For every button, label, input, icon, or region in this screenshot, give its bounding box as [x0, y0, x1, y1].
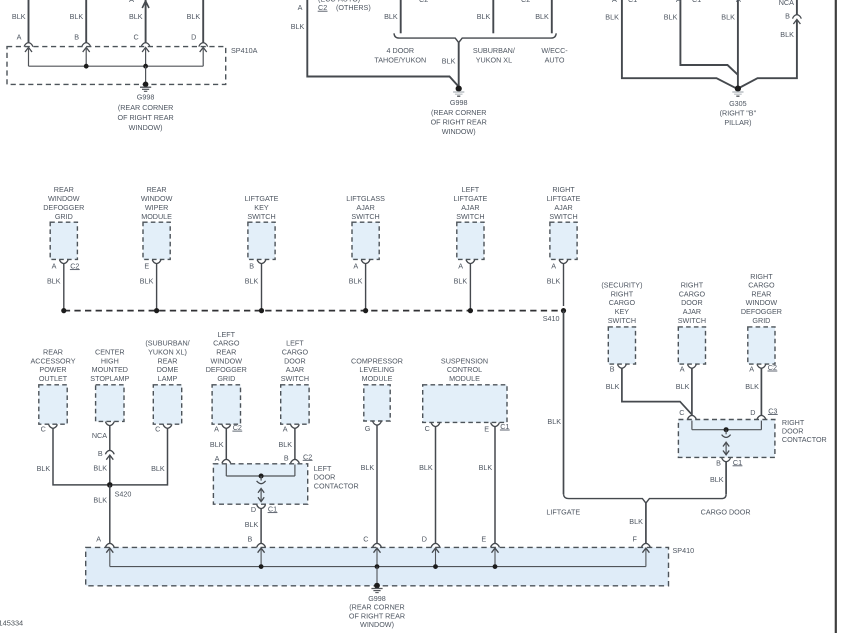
svg-text:LEVELING: LEVELING: [359, 365, 395, 374]
pin A connector of right cargo rear window defogger grid: [757, 364, 766, 368]
svg-text:AUTO: AUTO: [545, 55, 565, 64]
svg-text:SWITCH: SWITCH: [678, 316, 706, 325]
svg-text:KEY: KEY: [254, 203, 269, 212]
svg-text:BLK: BLK: [676, 382, 690, 391]
svg-text:E: E: [481, 534, 486, 543]
svg-text:HIGH: HIGH: [101, 356, 119, 365]
wire BLK 4dr into brace: [400, 0, 402, 33]
wire BLK contactor D to SP410 pin B: [260, 509, 262, 544]
stub inside SP410 pin B: [260, 548, 262, 567]
dashed ground bus S410: [64, 310, 564, 312]
SP410 internal bus: [110, 566, 646, 568]
svg-text:A: A: [17, 33, 22, 42]
svg-text:B: B: [74, 33, 79, 42]
wire BLK ecc into brace: [551, 0, 553, 33]
pin connector of center high mounted stoplamp: [105, 422, 114, 426]
svg-text:RIGHT: RIGHT: [750, 272, 773, 281]
connector at SP410A pin D: [199, 43, 208, 47]
right contactor internal bus: [692, 429, 762, 431]
SP410A ground drop wire: [145, 66, 147, 83]
junction dot B: [84, 64, 89, 69]
svg-text:C2: C2: [521, 0, 530, 4]
svg-text:D: D: [251, 505, 256, 514]
component box rear window defogger grid: [50, 222, 77, 259]
svg-text:G998: G998: [137, 93, 155, 102]
component box security right cargo key switch: [608, 327, 635, 364]
svg-text:B: B: [284, 454, 289, 463]
svg-text:D: D: [750, 408, 755, 417]
wire BLK compressor to SP410 pin C: [376, 425, 378, 543]
splice pack SP410 box: [86, 547, 669, 585]
right contactor junction dot: [724, 427, 729, 432]
svg-text:CONTACTOR: CONTACTOR: [782, 435, 827, 444]
connector at SP410A pin C: [141, 43, 150, 47]
svg-text:POWER: POWER: [39, 365, 66, 374]
svg-text:SP410: SP410: [673, 546, 695, 555]
pin A connector of right liftgate ajar switch: [559, 260, 568, 264]
svg-text:MOUNTED: MOUNTED: [92, 365, 128, 374]
svg-text:BLK: BLK: [721, 13, 735, 22]
svg-text:BLK: BLK: [93, 463, 107, 472]
SP410 bus dot D: [433, 564, 438, 569]
svg-text:NCA: NCA: [92, 431, 107, 440]
svg-text:E: E: [484, 424, 489, 433]
svg-text:BLK: BLK: [12, 12, 26, 21]
stub inside SP410A pin A: [28, 48, 30, 67]
svg-text:WIPER: WIPER: [145, 203, 169, 212]
svg-text:BLK: BLK: [384, 12, 398, 21]
svg-text:LEFT: LEFT: [314, 464, 332, 473]
wire BLK from rear window defogger grid to bus: [63, 264, 65, 311]
svg-text:DOME: DOME: [157, 365, 179, 374]
connector at SP410 pin C: [373, 543, 382, 547]
svg-text:PILLAR): PILLAR): [724, 118, 751, 127]
connector at SP410A pin B: [82, 43, 91, 47]
svg-text:LIFTGATE: LIFTGATE: [245, 194, 279, 203]
arrow off-page at top of wire C: [142, 1, 149, 8]
svg-text:A: A: [129, 0, 134, 4]
wire BLK suspension C to SP410 pin D: [435, 427, 437, 544]
wire BLK defogger to contactor pin D: [760, 368, 762, 415]
component box rear accessory power outlet: [39, 385, 67, 424]
wire stoplamp upper: [109, 426, 111, 451]
svg-text:G998: G998: [450, 98, 468, 107]
stub inside SP410 pin C: [376, 548, 378, 567]
svg-text:145334: 145334: [0, 619, 23, 628]
svg-text:B: B: [785, 11, 790, 20]
bus junction dot at left liftgate ajar switch: [468, 308, 473, 313]
svg-text:BLK: BLK: [419, 463, 433, 472]
svg-text:DEFOGGER: DEFOGGER: [206, 365, 247, 374]
component box left cargo rear window defogger grid: [212, 385, 240, 424]
svg-text:SUSPENSION: SUSPENSION: [441, 356, 488, 365]
svg-text:CARGO: CARGO: [609, 298, 636, 307]
svg-text:A: A: [214, 424, 219, 433]
pin B connector of liftgate key switch: [257, 260, 266, 264]
svg-text:REAR: REAR: [43, 348, 63, 357]
svg-text:S410: S410: [543, 314, 560, 323]
svg-text:COMPRESSOR: COMPRESSOR: [351, 356, 403, 365]
pin B connector of security right cargo key switch: [618, 364, 627, 368]
svg-text:(RIGHT "B": (RIGHT "B": [720, 108, 757, 117]
svg-text:BLK: BLK: [245, 520, 259, 529]
svg-text:SWITCH: SWITCH: [281, 374, 309, 383]
svg-text:BLK: BLK: [535, 12, 549, 21]
svg-text:C: C: [155, 424, 160, 433]
SP410A internal bus: [29, 65, 204, 67]
svg-text:AJAR: AJAR: [554, 203, 572, 212]
connector at SP410 pin D: [431, 543, 440, 547]
component box rear window wiper module: [143, 222, 170, 259]
svg-text:CARGO: CARGO: [213, 339, 240, 348]
svg-text:(REAR CORNER: (REAR CORNER: [431, 108, 487, 117]
wire BLK into SP410A pin D: [202, 0, 204, 43]
svg-text:(REAR CORNER: (REAR CORNER: [118, 103, 174, 112]
svg-text:C1: C1: [628, 0, 637, 4]
svg-text:BLK: BLK: [664, 13, 678, 22]
svg-text:4 DOOR: 4 DOOR: [387, 46, 415, 55]
svg-text:NCA: NCA: [779, 0, 794, 7]
svg-text:DEFOGGER: DEFOGGER: [741, 307, 782, 316]
svg-text:D: D: [191, 33, 196, 42]
svg-text:A: A: [736, 0, 741, 4]
svg-text:C2: C2: [419, 0, 428, 4]
svg-text:BLK: BLK: [780, 30, 794, 39]
svg-text:OF RIGHT REAR: OF RIGHT REAR: [431, 118, 487, 127]
svg-text:BLK: BLK: [454, 277, 468, 286]
svg-text:BLK: BLK: [70, 12, 84, 21]
wire below connector B: [740, 20, 797, 87]
svg-text:G305: G305: [729, 99, 747, 108]
pin E connector of suspension module: [491, 423, 500, 427]
svg-text:A: A: [283, 424, 288, 433]
stub inside SP410 pin D: [435, 548, 437, 567]
wire NCA/B to G305: [796, 0, 798, 15]
right contactor stub D: [760, 421, 762, 430]
svg-text:SWITCH: SWITCH: [549, 212, 577, 221]
svg-text:A: A: [612, 0, 617, 4]
svg-text:B: B: [248, 534, 253, 543]
svg-text:SUBURBAN/: SUBURBAN/: [473, 46, 515, 55]
svg-text:BLK: BLK: [349, 277, 363, 286]
svg-text:BLK: BLK: [479, 463, 493, 472]
wire BLK brace to SP410 pin F: [645, 503, 647, 543]
wire brace to ground G998 middle: [458, 43, 460, 87]
svg-text:BLK: BLK: [629, 517, 643, 526]
wire BLK 1 to G305: [622, 0, 736, 88]
svg-text:BLK: BLK: [291, 22, 305, 31]
pin connector of suburban/yukon xl rear dome lamp: [163, 424, 172, 428]
svg-text:LEFT: LEFT: [218, 330, 236, 339]
svg-text:AJAR: AJAR: [286, 365, 304, 374]
component box liftglass ajar switch: [352, 222, 379, 259]
wire BLK from left liftgate ajar switch to bus: [469, 264, 471, 311]
svg-text:SWITCH: SWITCH: [608, 316, 636, 325]
right contactor contact symbol: [725, 430, 727, 435]
connector at SP410 pin A: [105, 543, 114, 547]
svg-text:LEFT: LEFT: [286, 339, 304, 348]
pin B of right door contactor: [722, 458, 731, 462]
pin connector of rear accessory power outlet: [49, 424, 58, 428]
svg-text:ACCESSORY: ACCESSORY: [30, 356, 75, 365]
svg-text:B: B: [98, 449, 103, 458]
wire BLK 3 to G305: [737, 0, 739, 87]
svg-text:A: A: [298, 3, 303, 12]
svg-text:LIFTGATE: LIFTGATE: [453, 194, 487, 203]
wire BLK from right liftgate ajar switch to bus: [563, 264, 565, 306]
svg-text:CARGO DOOR: CARGO DOOR: [701, 508, 751, 517]
svg-text:RIGHT: RIGHT: [611, 289, 634, 298]
svg-text:SWITCH: SWITCH: [456, 212, 484, 221]
ground G998 bottom: [374, 583, 380, 589]
wire outlet to S420: [53, 428, 107, 485]
svg-text:BLK: BLK: [151, 464, 165, 473]
svg-text:RIGHT: RIGHT: [552, 185, 575, 194]
svg-text:BLK: BLK: [710, 475, 724, 484]
svg-text:RIGHT: RIGHT: [681, 281, 704, 290]
wire stoplamp lower to S420: [109, 456, 111, 485]
splice pack SP410A box: [7, 47, 226, 85]
junction dot C: [143, 64, 148, 69]
svg-text:STOPLAMP: STOPLAMP: [90, 374, 129, 383]
SP410 bus dot C: [375, 564, 380, 569]
page border right: [835, 0, 837, 633]
svg-text:BLK: BLK: [129, 12, 143, 21]
svg-text:CARGO: CARGO: [748, 281, 775, 290]
left contactor internal bus: [226, 475, 295, 477]
wire dome lamp to S420: [113, 428, 168, 485]
svg-text:DOOR: DOOR: [314, 473, 336, 482]
svg-text:A: A: [680, 364, 685, 373]
svg-text:BLK: BLK: [93, 495, 107, 504]
svg-text:GRID: GRID: [217, 374, 235, 383]
stub inside SP410A pin B: [85, 48, 87, 67]
wire BLK from liftglass ajar switch to bus: [365, 264, 367, 311]
svg-text:CONTROL: CONTROL: [447, 365, 482, 374]
svg-text:OF RIGHT REAR: OF RIGHT REAR: [118, 113, 174, 122]
svg-text:WINDOW: WINDOW: [211, 356, 243, 365]
svg-text:C: C: [679, 408, 684, 417]
svg-text:MODULE: MODULE: [449, 374, 480, 383]
wire BLK sub into brace: [492, 0, 494, 33]
svg-text:C: C: [41, 424, 46, 433]
left contactor stub A: [225, 465, 227, 477]
svg-text:BLK: BLK: [605, 13, 619, 22]
wire BLK ajar switch to contactor pin C: [691, 368, 693, 415]
svg-text:LIFTGLASS: LIFTGLASS: [346, 194, 385, 203]
svg-text:(OTHERS): (OTHERS): [336, 3, 371, 12]
SP410 ground drop: [376, 567, 378, 585]
svg-text:WINDOW): WINDOW): [442, 127, 476, 136]
bus junction dot at liftglass ajar switch: [363, 308, 368, 313]
right contactor stub C: [691, 421, 693, 430]
component box center high mounted stoplamp: [96, 385, 124, 422]
pin G connector of compressor: [373, 421, 382, 425]
svg-text:BLK: BLK: [140, 277, 154, 286]
svg-text:CARGO: CARGO: [679, 289, 706, 298]
svg-text:B: B: [716, 458, 721, 467]
svg-text:MODULE: MODULE: [362, 374, 393, 383]
component box liftgate key switch: [248, 222, 275, 259]
pin A connector of rear window defogger grid: [59, 260, 68, 264]
svg-text:LAMP: LAMP: [158, 374, 178, 383]
svg-text:W/ECC-: W/ECC-: [541, 46, 568, 55]
svg-text:(SECURITY): (SECURITY): [601, 281, 642, 290]
svg-text:LEFT: LEFT: [462, 185, 480, 194]
brace liftgate/cargo door: [564, 494, 727, 503]
svg-text:CENTER: CENTER: [95, 348, 125, 357]
svg-text:MODULE: MODULE: [141, 212, 172, 221]
wire BLK from rear window wiper module to bus: [156, 264, 158, 311]
svg-text:BLK: BLK: [361, 463, 375, 472]
svg-text:BLK: BLK: [745, 382, 759, 391]
svg-text:GRID: GRID: [752, 316, 770, 325]
ground G305: [735, 86, 741, 92]
connector at SP410 pin F: [642, 543, 651, 547]
svg-text:REAR: REAR: [751, 289, 771, 298]
svg-text:BLK: BLK: [47, 277, 61, 286]
svg-text:TAHOE/YUKON: TAHOE/YUKON: [374, 55, 426, 64]
inline connector B top right: [793, 15, 802, 19]
svg-text:BLK: BLK: [477, 12, 491, 21]
svg-text:S420: S420: [115, 490, 132, 499]
svg-text:BLK: BLK: [245, 277, 259, 286]
svg-text:SWITCH: SWITCH: [247, 212, 275, 221]
left contactor contact symbol: [260, 476, 262, 481]
stub inside SP410 pin E: [494, 548, 496, 567]
bus junction dot at liftgate key switch: [259, 308, 264, 313]
ground G998 middle: [456, 86, 462, 92]
svg-text:WINDOW): WINDOW): [129, 123, 163, 132]
svg-text:GRID: GRID: [55, 212, 73, 221]
svg-text:C1: C1: [692, 0, 701, 4]
component box left liftgate ajar switch: [457, 222, 484, 259]
wire BLK from left cargo door ajar switch: [294, 428, 296, 459]
pin A connector of right cargo door ajar switch: [688, 364, 697, 368]
SP410 bus dot B: [259, 564, 264, 569]
wire BLK contactor B to cargo-door brace: [725, 462, 727, 494]
wire BLK from liftgate key switch to bus: [261, 264, 263, 311]
left door contactor box: [213, 464, 307, 504]
svg-text:WINDOW): WINDOW): [360, 620, 394, 629]
pin A connector of left liftgate ajar switch: [466, 260, 475, 264]
svg-text:DOOR: DOOR: [284, 356, 306, 365]
right door contactor box: [678, 420, 775, 458]
svg-text:A: A: [551, 262, 556, 271]
svg-text:DOOR: DOOR: [681, 298, 703, 307]
splice S420: [107, 482, 113, 488]
svg-text:AJAR: AJAR: [683, 307, 701, 316]
SP410 bus dot E: [493, 564, 498, 569]
svg-text:BLK: BLK: [547, 417, 561, 426]
bus junction dot at rear window defogger grid: [61, 308, 66, 313]
splice dot S410: [561, 308, 566, 313]
wire BLK key switch to contactor pin C: [622, 368, 692, 414]
wire BLK suspension E to SP410 pin E: [494, 427, 496, 544]
svg-text:SWITCH: SWITCH: [351, 212, 379, 221]
stub inside SP410A pin D: [202, 48, 204, 67]
component box suburban/yukon xl rear dome lamp: [153, 385, 181, 424]
svg-text:A: A: [52, 262, 57, 271]
svg-text:WINDOW: WINDOW: [141, 194, 173, 203]
component box suspension control module: [423, 385, 507, 423]
bus junction dot at rear window wiper module: [154, 308, 159, 313]
wire BLK into SP410A pin B: [85, 0, 87, 43]
stub inside SP410 pin F: [645, 548, 647, 567]
svg-text:F: F: [633, 534, 638, 543]
ground G998 left: [143, 82, 149, 88]
svg-text:G: G: [365, 424, 371, 433]
svg-text:LIFTGATE: LIFTGATE: [546, 508, 580, 517]
svg-text:AJAR: AJAR: [356, 203, 374, 212]
connector at SP410 pin E: [491, 543, 500, 547]
svg-text:A: A: [676, 0, 681, 4]
svg-text:BLK: BLK: [210, 440, 224, 449]
wire S420 to SP410 pin A: [109, 485, 111, 543]
svg-text:SP410A: SP410A: [231, 46, 258, 55]
component box compressor leveling module: [364, 385, 390, 421]
wire BLK into SP410A pin C: [145, 0, 147, 43]
svg-text:AJAR: AJAR: [461, 203, 479, 212]
svg-text:BLK: BLK: [442, 56, 456, 65]
svg-text:C: C: [425, 424, 430, 433]
svg-text:E: E: [144, 262, 149, 271]
svg-text:D: D: [422, 534, 427, 543]
svg-text:REAR: REAR: [158, 356, 178, 365]
svg-text:YUKON XL): YUKON XL): [148, 348, 187, 357]
svg-text:B: B: [610, 364, 615, 373]
left contactor stub B: [294, 465, 296, 477]
svg-text:B: B: [249, 262, 254, 271]
stub inside SP410 pin A: [109, 548, 111, 567]
svg-text:REAR: REAR: [54, 185, 74, 194]
svg-text:A: A: [215, 454, 220, 463]
pin A connector of left cargo rear window defogger grid: [222, 424, 231, 428]
wire BLK from left cargo rear window defogger grid: [225, 428, 227, 459]
svg-text:A: A: [458, 262, 463, 271]
wire BLK from S410 down: [563, 311, 565, 495]
left contactor junction dot: [259, 474, 264, 479]
connector at SP410A pin A: [24, 43, 33, 47]
svg-text:(SUBURBAN/: (SUBURBAN/: [145, 339, 189, 348]
svg-text:CONTACTOR: CONTACTOR: [314, 481, 359, 490]
pin D of left door contactor: [257, 505, 266, 509]
svg-text:A: A: [749, 364, 754, 373]
svg-text:BLK: BLK: [606, 382, 620, 391]
wire BLK from connector A C2: [307, 0, 458, 87]
svg-text:WINDOW: WINDOW: [746, 298, 778, 307]
svg-text:DEFOGGER: DEFOGGER: [43, 203, 84, 212]
pin A connector of left cargo door ajar switch: [291, 424, 300, 428]
pin E connector of rear window wiper module: [152, 260, 161, 264]
component box right liftgate ajar switch: [550, 222, 577, 259]
svg-text:KEY: KEY: [615, 307, 630, 316]
svg-text:BLK: BLK: [279, 440, 293, 449]
component box right cargo rear window defogger grid: [748, 327, 775, 364]
svg-text:A: A: [353, 262, 358, 271]
svg-text:A: A: [96, 534, 101, 543]
svg-text:BLK: BLK: [37, 464, 51, 473]
svg-text:BLK: BLK: [547, 277, 561, 286]
wire BLK 2 to G305: [680, 0, 738, 75]
svg-text:LIFTGATE: LIFTGATE: [547, 194, 581, 203]
stub inside SP410A pin C: [145, 48, 147, 67]
svg-text:OUTLET: OUTLET: [39, 374, 68, 383]
svg-text:C: C: [133, 33, 138, 42]
svg-text:REAR: REAR: [216, 348, 236, 357]
svg-text:YUKON XL: YUKON XL: [476, 55, 512, 64]
svg-text:BLK: BLK: [187, 12, 201, 21]
